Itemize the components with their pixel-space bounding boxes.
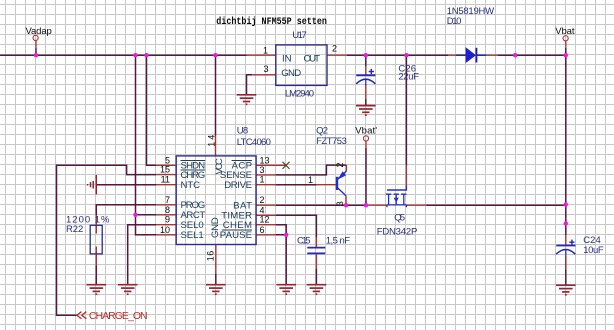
ground NTC left	[88, 175, 97, 194]
pin U8.5 SHDN	[156, 164, 176, 166]
transistor Q2 FZT753	[308, 125, 347, 206]
svg-text:22uF: 22uF	[398, 72, 419, 83]
wire CHEM jog	[276, 225, 286, 235]
pin Q2 emitter	[345, 165, 347, 171]
svg-text:GND: GND	[281, 68, 301, 79]
transistor Q5 FDN342P	[377, 185, 418, 237]
svg-text:U17: U17	[292, 30, 307, 41]
wire gate vertical	[405, 55, 407, 165]
wire R22 bottom to ground	[95, 266, 97, 285]
junction rail gate	[404, 53, 408, 57]
junction rail x215	[213, 53, 217, 57]
svg-text:Q2: Q2	[316, 125, 328, 136]
port CHARGE_ON	[77, 310, 148, 322]
svg-text:8: 8	[165, 205, 170, 215]
pin U8.14 VCC	[215, 136, 217, 156]
wire C26 bottom to ground	[365, 99, 367, 105]
pin D10 anode	[448, 54, 456, 56]
pin U8.10 SEL1	[156, 234, 176, 236]
svg-text:16: 16	[206, 251, 216, 262]
pin C15 top	[315, 237, 317, 247]
wire SEL0 to ground	[128, 225, 156, 284]
ground C24	[556, 285, 576, 295]
svg-text:10: 10	[160, 225, 170, 235]
junction Q2 collector	[344, 203, 348, 207]
pin U8.3 SENSE	[256, 174, 276, 176]
pin U17.1 IN	[247, 54, 276, 56]
svg-text:FDN342P: FDN342P	[377, 226, 418, 237]
svg-text:1: 1	[263, 46, 268, 56]
pin U17.3 GND	[252, 74, 276, 76]
svg-text:NTC: NTC	[181, 180, 201, 191]
svg-text:3: 3	[260, 165, 265, 175]
svg-text:PAUSE: PAUSE	[220, 230, 252, 241]
capacitor C15	[297, 236, 350, 254]
svg-text:DRIVE: DRIVE	[224, 180, 252, 191]
pin U8.15 CHRG	[156, 174, 176, 176]
svg-text:1,5 nF: 1,5 nF	[326, 236, 350, 247]
wire Vbat' down to BAT	[365, 148, 367, 205]
svg-text:1: 1	[308, 175, 313, 185]
svg-text:12: 12	[260, 215, 270, 225]
pin Q5 gate	[405, 165, 407, 185]
svg-text:LM2940: LM2940	[285, 89, 314, 100]
ground C26	[356, 106, 376, 116]
svg-text:CHARGE_ON: CHARGE_ON	[89, 310, 148, 322]
svg-text:R22: R22	[66, 224, 83, 235]
pin D10 cathode	[486, 54, 498, 56]
pin Q2 collector	[345, 196, 347, 205]
pin U8.8 ARCT	[156, 214, 176, 216]
svg-text:Vbat': Vbat'	[355, 126, 377, 137]
svg-text:LTC4060: LTC4060	[237, 137, 271, 148]
wire BAT row	[276, 204, 566, 206]
IC U8 LTC4060	[160, 126, 271, 262]
pin U8.11 NTC	[156, 184, 176, 186]
wire CHARGE_ON to CHRG	[57, 165, 157, 315]
pin R22 bottom	[95, 247, 97, 266]
pin U8.1 DRIVE	[256, 184, 276, 186]
svg-text:U8: U8	[237, 126, 248, 137]
svg-text:OUT: OUT	[304, 53, 321, 64]
regulator U17	[263, 30, 337, 100]
pin C24 top	[565, 235, 567, 246]
wire C26 tap	[365, 55, 367, 66]
svg-text:3: 3	[264, 64, 269, 74]
junction rail C26	[364, 53, 368, 57]
no-connect X on ACP	[283, 162, 290, 169]
svg-text:GND: GND	[210, 217, 221, 238]
svg-text:Vbat: Vbat	[555, 26, 575, 37]
junction rail x135	[133, 53, 137, 57]
svg-text:15: 15	[160, 165, 170, 175]
pin U8.6 PAUSE	[256, 234, 276, 236]
svg-text:Vadap: Vadap	[26, 26, 52, 37]
svg-text:2: 2	[332, 44, 337, 54]
wire Vadap rail	[0, 54, 247, 56]
svg-text:IN: IN	[282, 53, 292, 64]
ground R22	[87, 285, 107, 295]
wire vertical to pin 14	[215, 55, 217, 136]
pin U8.9 SEL0	[156, 224, 176, 226]
junction rail x146	[144, 53, 148, 57]
junction C24 top	[564, 221, 568, 225]
pin U8.2 BAT	[256, 204, 276, 206]
wire DRIVE to Q2 base	[276, 184, 316, 186]
resistor R22	[66, 215, 110, 254]
power port Vbat	[555, 26, 575, 48]
junction rail x515	[513, 53, 517, 57]
svg-text:3: 3	[335, 201, 345, 206]
power port Vbat'	[355, 126, 377, 149]
svg-text:14: 14	[207, 135, 217, 147]
pin U8.12 CHEM	[256, 224, 276, 226]
wire NTC to ground	[96, 184, 156, 186]
wire U17 GND to ground	[247, 75, 253, 94]
wire Vbat vertical to C24	[565, 48, 567, 235]
pin U8.16 GND	[215, 245, 217, 274]
pin U17.2 OUT	[327, 54, 347, 56]
junction CHEM PAUSE	[284, 233, 288, 237]
pin U8.13 ACP	[256, 164, 286, 166]
pin U8.4 TIMER	[256, 214, 276, 216]
ground SEL0	[118, 285, 138, 295]
wire PROG to R22	[96, 205, 156, 215]
wire C24 bottom to ground	[565, 256, 567, 285]
wire PAUSE to ground	[276, 235, 286, 284]
svg-text:FZT753: FZT753	[316, 136, 347, 147]
svg-text:6: 6	[260, 225, 265, 235]
diode D10	[447, 6, 494, 63]
junction rail Vbat	[564, 53, 568, 57]
svg-text:Q5: Q5	[394, 213, 405, 224]
ground CHEM PAUSE	[276, 285, 296, 295]
svg-text:11: 11	[161, 175, 170, 185]
svg-text:SEL1: SEL1	[181, 230, 204, 241]
junction BAT C24	[564, 202, 568, 206]
pin U8.7 PROG	[156, 204, 176, 206]
wire TIMER to C15	[276, 215, 316, 237]
pin Q5 left	[366, 204, 387, 206]
pin C24 bottom	[565, 256, 567, 270]
ground U17	[237, 95, 257, 105]
svg-text:C15: C15	[297, 236, 311, 247]
svg-text:D10: D10	[447, 16, 462, 27]
ground U8 pin16	[206, 285, 226, 295]
svg-text:2: 2	[335, 162, 345, 167]
pin C26 bottom	[365, 84, 367, 99]
power port Vadap	[26, 26, 52, 55]
svg-text:1: 1	[260, 175, 265, 185]
svg-text:dichtbij NFM55P setten: dichtbij NFM55P setten	[216, 16, 327, 28]
wire pin16 to ground	[215, 274, 217, 284]
wire C15 bottom to ground	[315, 269, 317, 284]
pin Q5 right	[406, 204, 426, 206]
pin R22 top	[95, 215, 97, 234]
pin C15 bottom	[315, 254, 317, 269]
capacitor C24	[556, 235, 604, 256]
svg-text:VCC: VCC	[214, 158, 225, 174]
junction ARCT	[133, 213, 137, 217]
capacitor C26	[356, 64, 419, 85]
wire vertical to SHDN	[147, 55, 157, 165]
wire OUT rail to diode	[347, 54, 566, 56]
wire vertical to ARCT and SEL1	[136, 55, 157, 235]
svg-text:7: 7	[165, 195, 170, 205]
junction Vbat' BAT	[364, 203, 368, 207]
ground C15	[307, 285, 327, 295]
wire SENSE to Q2 emitter	[276, 165, 346, 175]
svg-text:10uF: 10uF	[583, 245, 604, 256]
svg-text:9: 9	[165, 215, 170, 225]
junction rail Vadap	[34, 53, 38, 57]
svg-text:2: 2	[260, 195, 265, 205]
pin C26 top	[365, 66, 367, 75]
svg-text:13: 13	[260, 155, 270, 165]
